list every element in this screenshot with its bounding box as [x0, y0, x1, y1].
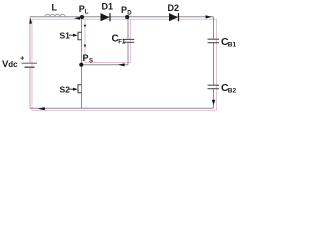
svg-text:D2: D2 [168, 3, 180, 13]
svg-text:D: D [127, 11, 132, 17]
svg-text:S: S [89, 59, 93, 65]
svg-text:+: + [20, 55, 24, 62]
svg-text:B2: B2 [228, 88, 237, 95]
svg-text:L: L [85, 10, 89, 16]
svg-text:S2: S2 [60, 85, 71, 95]
svg-text:F1: F1 [118, 40, 126, 46]
svg-text:S1: S1 [60, 31, 71, 41]
svg-text:P: P [83, 53, 89, 63]
svg-text:B1: B1 [228, 42, 237, 49]
svg-text:P: P [121, 5, 127, 15]
svg-text:L: L [52, 3, 58, 13]
svg-text:D1: D1 [102, 2, 114, 12]
svg-text:dc: dc [8, 60, 18, 69]
